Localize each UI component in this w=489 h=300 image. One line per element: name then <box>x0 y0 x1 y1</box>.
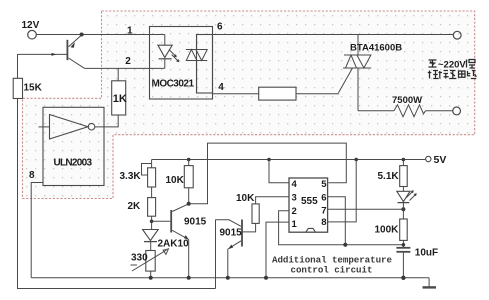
node cap at ground bus <box>401 276 405 280</box>
svg-text:12V: 12V <box>22 20 40 31</box>
wire feedback riser to Q2 collector <box>215 220 217 289</box>
wire Q2 emitter to ground bus <box>227 249 229 278</box>
resistor 7500W load <box>358 95 453 117</box>
op-amp U2 ULN2003 inverter <box>39 107 105 185</box>
node Q1 emitter at bus <box>187 276 191 280</box>
transistor Q1 9015 <box>171 204 206 240</box>
svg-text:8: 8 <box>29 170 35 181</box>
svg-text:ULN2003: ULN2003 <box>54 158 93 169</box>
resistor 15K <box>13 78 42 98</box>
svg-text:6: 6 <box>321 193 326 204</box>
svg-text:2: 2 <box>292 206 297 217</box>
wire 5V rail <box>152 159 426 161</box>
svg-text:10K: 10K <box>166 175 185 186</box>
wire 2K to diode <box>151 216 153 229</box>
node pin1 at bus <box>264 276 268 280</box>
resistor 10K second <box>236 193 289 223</box>
svg-text:5: 5 <box>321 179 327 190</box>
rheostat 330 <box>131 249 169 271</box>
LED indicator D2 <box>397 187 417 210</box>
wire Q0 collector to MOC pin2 <box>85 67 165 69</box>
wire ground bus <box>31 277 429 279</box>
node pin8 riser <box>354 158 358 162</box>
svg-text:3.3K: 3.3K <box>120 171 142 182</box>
node pin4 riser <box>267 158 271 162</box>
svg-text:8: 8 <box>321 217 326 228</box>
wire Q1 emitter to ground bus <box>188 240 190 278</box>
node pin7 divider junction <box>401 207 405 211</box>
resistor 10K first <box>166 160 194 204</box>
resistor 2K <box>128 198 156 217</box>
svg-text:5V: 5V <box>434 154 447 166</box>
LED inside MOC3021 <box>158 35 179 69</box>
wire rheostat to ground bus <box>150 271 152 278</box>
node 5.1K tap <box>402 158 406 162</box>
svg-text:2K: 2K <box>128 201 142 212</box>
triac Q3 BTA41600B <box>343 35 402 111</box>
svg-text:control circuit: control circuit <box>291 265 373 276</box>
svg-text:4: 4 <box>292 179 298 190</box>
label to ~220V protection control circuit (CJK approximated) <box>428 60 477 79</box>
wire Q1 base <box>152 220 171 222</box>
transistor Q2 9015 (mirrored) <box>216 220 243 250</box>
diode 2AK10 <box>143 230 189 251</box>
wire 555 pin8 to 5V <box>328 160 357 222</box>
wire Q2 base <box>242 223 256 232</box>
terminal circle top right <box>453 31 461 39</box>
svg-text:10K: 10K <box>236 193 255 204</box>
resistor 100K <box>375 209 408 240</box>
pin labels MOC <box>125 22 224 94</box>
IC U3 555 timer <box>289 178 328 232</box>
svg-text:4: 4 <box>218 82 224 93</box>
wire 555 pin2 loop to cap <box>279 211 404 245</box>
svg-text:3: 3 <box>292 193 297 204</box>
capacitor 10uF <box>396 240 438 277</box>
svg-text:7: 7 <box>321 205 326 216</box>
resistor 3.3K with top tap loop <box>120 160 156 188</box>
resistor gate series (unlabeled) <box>259 87 296 100</box>
wire feedback bus (lower) <box>17 288 216 290</box>
svg-text:1: 1 <box>127 26 133 37</box>
svg-text:7500W: 7500W <box>392 95 422 106</box>
12V supply terminal <box>22 20 40 39</box>
wire MOC pin6 to 220V terminal <box>213 34 454 36</box>
node Q2 emitter at bus <box>226 276 230 280</box>
svg-text:10uF: 10uF <box>415 247 438 258</box>
svg-text:555: 555 <box>301 196 318 207</box>
triac inside MOC3021 <box>186 35 207 94</box>
svg-text:1: 1 <box>292 219 298 230</box>
wire base to 15K <box>17 54 19 78</box>
wire 555 pin7 to divider <box>328 208 404 210</box>
node Q1 collector junction <box>187 202 191 206</box>
wire collector node to 555 pin5 loop <box>189 143 347 204</box>
node 10K1 top <box>187 158 191 162</box>
resistor 5.1K <box>378 160 408 187</box>
pin 8 label ULN <box>29 170 35 181</box>
node rheostat at bus <box>149 276 153 280</box>
wire 555 pin6 riser <box>328 197 346 245</box>
svg-text:~220V: ~220V <box>438 60 466 71</box>
wire 12V rail to optocoupler LED <box>36 34 165 36</box>
svg-text:1K: 1K <box>113 93 127 105</box>
wire 3.3K to 2K <box>151 187 153 198</box>
svg-text:100K: 100K <box>375 225 400 236</box>
wire 1K to ULN2003 output <box>95 126 119 128</box>
wire Q0 base <box>18 53 67 56</box>
wire 555 pin4 to 5V <box>269 160 289 183</box>
node junction at Q0 emitter <box>80 33 84 37</box>
transistor Q0 (PNP driver) <box>67 35 84 68</box>
svg-text:2AK10: 2AK10 <box>158 238 190 249</box>
wire triac gate <box>296 68 353 94</box>
optocoupler U1 MOC3021 <box>150 27 213 100</box>
caption Additional temperature control circuit <box>272 254 392 275</box>
ground <box>423 278 437 288</box>
svg-text:9015: 9015 <box>220 228 243 239</box>
svg-text:MOC3021: MOC3021 <box>152 79 195 90</box>
svg-text:9015: 9015 <box>184 217 207 228</box>
terminal circle lower right <box>453 107 461 115</box>
node cap top junction <box>402 243 406 247</box>
dashed control-area outline (red polygon with dotted grid fill) <box>23 11 475 199</box>
wire 15K down to bottom feedback bus <box>17 99 19 290</box>
wire ULN pin8 to ground bus <box>31 183 43 278</box>
svg-text:5.1K: 5.1K <box>378 171 400 182</box>
node Q1 base tap <box>150 220 154 224</box>
5V terminal <box>426 154 447 166</box>
svg-text:6: 6 <box>217 22 223 33</box>
node pin6 riser at pin2 wire <box>343 243 347 247</box>
resistor 1K <box>112 68 127 127</box>
wire MOC pin4 to gate resistor <box>213 93 259 95</box>
svg-text:15K: 15K <box>24 83 43 94</box>
wire 555 pin1 to ground bus <box>266 222 289 278</box>
svg-text:2: 2 <box>125 56 131 67</box>
svg-text:330: 330 <box>131 252 148 263</box>
